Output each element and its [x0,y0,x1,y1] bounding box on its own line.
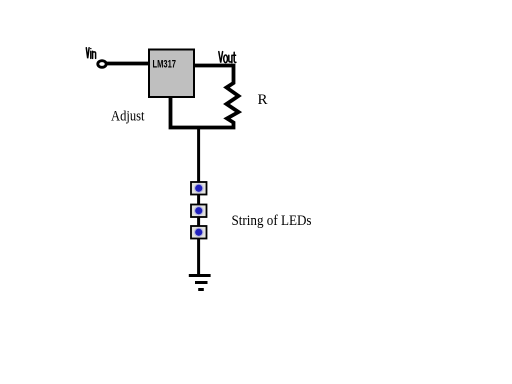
svg-text:Adjust: Adjust [111,109,145,125]
svg-text:String of LEDs: String of LEDs [232,213,312,229]
svg-text:LM317: LM317 [153,59,177,71]
svg-text:R: R [258,92,268,108]
